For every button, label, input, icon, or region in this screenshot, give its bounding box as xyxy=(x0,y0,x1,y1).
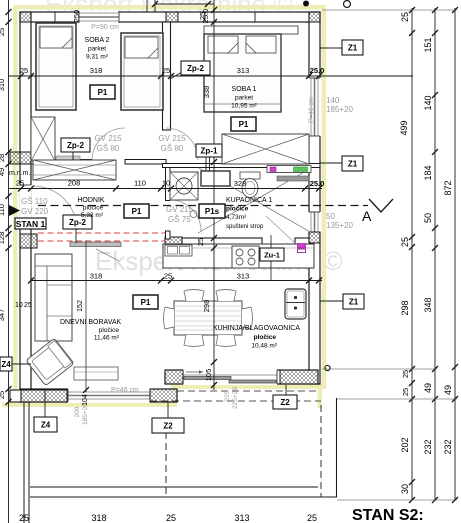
svg-text:P=46 cm: P=46 cm xyxy=(111,387,139,394)
svg-text:250: 250 xyxy=(72,10,81,23)
window bottom living xyxy=(68,388,150,403)
wall partition soba2/soba1 xyxy=(163,22,171,130)
insulation bottom kitchen yellow xyxy=(171,385,322,390)
svg-text:49: 49 xyxy=(423,383,433,393)
svg-text:Zp-1: Zp-1 xyxy=(201,146,218,155)
svg-text:GV 215: GV 215 xyxy=(94,134,122,143)
svg-text:298: 298 xyxy=(202,300,211,313)
sliding door kitchen terrace xyxy=(183,369,277,385)
svg-text:25: 25 xyxy=(400,12,410,22)
svg-text:298: 298 xyxy=(400,300,410,315)
wall bathroom left lower xyxy=(166,231,171,239)
svg-text:318: 318 xyxy=(90,66,103,75)
svg-text:10: 10 xyxy=(162,179,170,188)
wall kitchen-bathroom left segment xyxy=(182,238,262,248)
leader Zp-2 soba1 xyxy=(170,72,182,79)
svg-text:P=40 cm: P=40 cm xyxy=(308,97,315,123)
svg-text:P1: P1 xyxy=(132,207,142,216)
dim line y280 xyxy=(31,280,322,282)
svg-text:310: 310 xyxy=(0,79,6,92)
circle top right xyxy=(344,1,351,8)
bed C soba1 double xyxy=(204,26,298,112)
section line A xyxy=(38,205,368,207)
hatch pier top-right corner xyxy=(309,12,320,22)
svg-text:135+20: 135+20 xyxy=(326,221,353,230)
dim line hallway y188 xyxy=(8,188,322,190)
insulation right yellow xyxy=(322,5,327,389)
svg-text:pločice: pločice xyxy=(254,334,277,341)
svg-text:DNEVNI BORAVAK: DNEVNI BORAVAK xyxy=(60,319,122,326)
label box Zu-1 xyxy=(260,248,284,261)
gray bar bathroom shower xyxy=(277,176,309,181)
closet soba1 X xyxy=(222,134,309,164)
label box Z1 xyxy=(342,40,363,55)
svg-text:Z1: Z1 xyxy=(348,43,358,52)
hatch pier kitchen bottom-left xyxy=(165,370,183,384)
dim chain center x214 xyxy=(213,0,215,390)
sliding door pocket diagonal xyxy=(96,249,119,261)
wall bathroom left upper xyxy=(166,168,171,201)
svg-text:50: 50 xyxy=(423,213,433,223)
label box Zp-2 xyxy=(63,215,92,229)
washing machine xyxy=(170,172,198,200)
svg-text:872: 872 xyxy=(443,180,453,195)
svg-text:25: 25 xyxy=(162,66,170,75)
label box P1s xyxy=(199,204,225,218)
leader Zp-2 closet xyxy=(72,151,74,160)
svg-text:Zp-2: Zp-2 xyxy=(187,64,204,73)
svg-text:185+20: 185+20 xyxy=(326,105,353,114)
terrace dashed vertical right xyxy=(320,405,322,497)
wall right xyxy=(309,12,320,384)
leader Zu-1 xyxy=(270,235,272,280)
leader Z1 mid xyxy=(320,162,342,164)
leader Z2 bottom xyxy=(167,402,169,418)
bed B soba2 right xyxy=(121,33,163,110)
insulation step yellow xyxy=(173,385,178,407)
chair bottom2 xyxy=(216,335,236,347)
label box P1 xyxy=(133,295,158,309)
svg-text:10: 10 xyxy=(15,302,23,309)
svg-text:Zu-1: Zu-1 xyxy=(264,250,280,259)
svg-text:Z1: Z1 xyxy=(349,297,359,306)
svg-text:347: 347 xyxy=(0,309,6,322)
svg-text:STAN S2:: STAN S2: xyxy=(352,507,424,523)
svg-text:10,48 m²: 10,48 m² xyxy=(251,343,277,350)
wall top xyxy=(20,12,320,22)
insulation kitchen corner yellow xyxy=(318,388,323,408)
svg-text:25: 25 xyxy=(16,179,24,188)
svg-text:110: 110 xyxy=(0,204,6,216)
label box P1 xyxy=(231,117,256,131)
top wall divider xyxy=(54,12,56,22)
label box Z1 xyxy=(343,294,364,309)
svg-text:parket: parket xyxy=(235,95,253,102)
extension line living x86 xyxy=(85,240,87,392)
svg-text:pločice: pločice xyxy=(99,327,120,334)
armchair rotated xyxy=(26,338,74,385)
svg-text:m.n.m.: m.n.m. xyxy=(9,170,30,177)
wall hallway top right segment xyxy=(125,160,166,165)
hatch pier living bottom-right xyxy=(150,389,177,402)
svg-text:P=90 cm: P=90 cm xyxy=(91,24,119,31)
bed A soba2 left xyxy=(36,23,76,110)
svg-text:5,32 m²: 5,32 m² xyxy=(81,212,104,219)
svg-text:313: 313 xyxy=(237,272,250,281)
svg-text:208: 208 xyxy=(68,179,81,188)
svg-text:Zp-2: Zp-2 xyxy=(67,141,84,150)
wall bottom living xyxy=(20,389,177,402)
svg-text:4,73m²: 4,73m² xyxy=(226,214,247,221)
hatch wall living bottom-left xyxy=(21,390,67,402)
dim chain left x8 xyxy=(8,0,10,523)
svg-text:25: 25 xyxy=(198,12,207,20)
insulation top yellow xyxy=(13,5,326,10)
leader Z4 bottom xyxy=(44,402,46,417)
label box STAN 1 xyxy=(15,218,46,229)
svg-text:25: 25 xyxy=(166,513,176,523)
svg-text:232: 232 xyxy=(443,439,453,454)
insulation bottom living yellow xyxy=(2,403,177,408)
hatch pier hallway-kitchen wall xyxy=(165,237,182,250)
terrace right solid line xyxy=(336,398,338,497)
fridge xyxy=(285,289,306,319)
label box Z1 xyxy=(342,156,363,171)
svg-text:348: 348 xyxy=(423,297,433,312)
svg-text:25: 25 xyxy=(400,237,410,247)
kitchen sink xyxy=(165,245,192,256)
hatch pier right bathroom window xyxy=(309,232,320,243)
svg-text:25: 25 xyxy=(0,28,6,36)
magenta switch kitchen xyxy=(298,244,306,253)
svg-text:110: 110 xyxy=(134,179,146,188)
door arc bathroom xyxy=(170,200,201,231)
dining table xyxy=(174,301,242,335)
svg-text:KUHINJA/BLAGOVAONICA: KUHINJA/BLAGOVAONICA xyxy=(213,325,300,332)
leader Zp-1 xyxy=(205,156,207,171)
pier living bottom-left protruding xyxy=(10,390,21,402)
svg-text:P1: P1 xyxy=(239,120,249,129)
svg-text:GŠ 80: GŠ 80 xyxy=(97,144,120,153)
label box Zp-2 xyxy=(181,61,210,75)
svg-text:104: 104 xyxy=(82,394,89,406)
svg-text:50: 50 xyxy=(326,212,335,221)
leader Z1 bottom xyxy=(320,300,343,302)
leader Z4 left xyxy=(11,363,31,365)
kitchen stove xyxy=(232,246,259,268)
boiler bathroom xyxy=(201,171,230,186)
red dashed ceiling lines xyxy=(38,232,165,234)
entrance door opening left wall xyxy=(20,185,78,230)
svg-text:P1s: P1s xyxy=(205,207,220,216)
svg-text:49: 49 xyxy=(443,385,453,395)
svg-text:25: 25 xyxy=(401,388,410,396)
svg-text:9,31 m²: 9,31 m² xyxy=(86,54,109,61)
svg-text:25: 25 xyxy=(196,238,205,246)
svg-text:GŠ 110: GŠ 110 xyxy=(21,197,48,206)
extension lines right xyxy=(322,9,457,11)
svg-text:25.0: 25.0 xyxy=(310,66,325,75)
leader Z1 top xyxy=(320,47,342,49)
svg-text:parket: parket xyxy=(88,46,106,53)
svg-text:318: 318 xyxy=(90,272,103,281)
label box P1 xyxy=(124,204,149,218)
svg-text:P1: P1 xyxy=(98,88,108,97)
terrace left double line xyxy=(23,402,25,523)
sliding door hallway bar xyxy=(70,242,121,247)
svg-text:225+20: 225+20 xyxy=(232,387,239,409)
wall hallway top left segment xyxy=(31,160,92,165)
chair top1 xyxy=(184,290,204,302)
hatch pier left hallway xyxy=(10,152,31,164)
svg-text:25: 25 xyxy=(164,272,172,281)
svg-text:200: 200 xyxy=(74,406,81,417)
top partial dim marks xyxy=(146,0,148,12)
bathroom cross X xyxy=(198,168,312,234)
svg-text:P1: P1 xyxy=(141,298,151,307)
svg-text:SOBA 2: SOBA 2 xyxy=(85,37,110,44)
terrace edge line upper xyxy=(30,486,318,488)
svg-text:25: 25 xyxy=(20,66,28,75)
hatch pier top partition xyxy=(166,12,178,22)
roof overhang dashed lower xyxy=(150,400,321,402)
roof overhang dashed upper xyxy=(177,390,318,392)
svg-text:Z1: Z1 xyxy=(348,159,358,168)
svg-text:STAN 1: STAN 1 xyxy=(16,219,46,229)
wardrobe soba2 left X xyxy=(31,117,55,161)
svg-text:25: 25 xyxy=(24,302,32,309)
chair top2 xyxy=(216,290,236,302)
svg-text:GV 220: GV 220 xyxy=(21,207,49,216)
svg-text:28: 28 xyxy=(0,154,6,162)
hatch pier top-left corner xyxy=(20,12,31,22)
svg-text:151: 151 xyxy=(423,37,433,52)
svg-text:25: 25 xyxy=(401,370,410,378)
wall kitchen-bathroom right segment xyxy=(295,238,309,248)
svg-text:140: 140 xyxy=(423,95,433,110)
window right soba1 xyxy=(308,78,321,136)
window top soba2 xyxy=(79,11,119,24)
svg-text:105: 105 xyxy=(204,369,213,382)
terrace edge line lower xyxy=(30,496,337,498)
insulation left yellow xyxy=(13,5,18,407)
dot top wall xyxy=(303,1,309,7)
chair right xyxy=(242,307,253,329)
svg-text:10,95 m²: 10,95 m² xyxy=(231,103,257,110)
hatch pier kitchen bottom-right xyxy=(280,370,318,384)
svg-text:spušteni strop: spušteni strop xyxy=(226,224,264,230)
label box Z2 bottom xyxy=(152,418,184,433)
svg-text:GV 215: GV 215 xyxy=(166,205,194,214)
svg-text:HODNIK: HODNIK xyxy=(77,197,105,204)
label box Zp-2 xyxy=(61,138,90,152)
shelf colored bathroom xyxy=(267,166,311,173)
kitchen counter xyxy=(163,244,314,268)
svg-text:140: 140 xyxy=(326,96,340,105)
circle kitchen corner xyxy=(325,365,330,370)
label box Zp-1 xyxy=(196,144,222,157)
coffee table xyxy=(74,367,118,380)
svg-text:A: A xyxy=(362,208,372,224)
label box Z4 left xyxy=(0,357,12,371)
window right bathroom xyxy=(308,212,321,232)
svg-text:Zp-2: Zp-2 xyxy=(69,218,86,227)
wall bottom kitchen xyxy=(165,370,318,384)
door arc soba2 xyxy=(92,128,125,161)
svg-text:499: 499 xyxy=(399,120,409,135)
svg-text:pločice: pločice xyxy=(83,205,104,212)
wall left xyxy=(20,12,31,402)
svg-text:338: 338 xyxy=(202,86,211,99)
label box Z2 right xyxy=(273,395,297,409)
sofa xyxy=(35,254,72,341)
leader Z2 right xyxy=(285,385,287,396)
terrace dashed vertical left xyxy=(165,432,167,497)
svg-text:225: 225 xyxy=(224,390,231,401)
label box P1 xyxy=(90,85,115,99)
svg-text:GV 215: GV 215 xyxy=(158,134,186,143)
wall bathroom top xyxy=(163,164,321,168)
WC bathroom xyxy=(240,172,260,198)
svg-text:SOBA 1: SOBA 1 xyxy=(232,86,257,93)
dim line top y76 xyxy=(8,75,413,77)
svg-text:184: 184 xyxy=(423,165,433,180)
svg-text:49: 49 xyxy=(0,168,6,176)
closet hallway X xyxy=(33,156,116,180)
chair bottom1 xyxy=(184,335,204,347)
svg-text:Z2: Z2 xyxy=(163,421,173,430)
svg-text:313: 313 xyxy=(234,513,249,523)
svg-text:318: 318 xyxy=(91,513,106,523)
svg-text:GŠ 75: GŠ 75 xyxy=(168,215,191,224)
chair left xyxy=(164,307,175,329)
svg-text:313: 313 xyxy=(237,66,250,75)
svg-text:GŠ 80: GŠ 80 xyxy=(161,144,184,153)
svg-text:25: 25 xyxy=(307,513,317,523)
label box Z4 bottom xyxy=(34,417,57,432)
elevation triangle entrance xyxy=(9,205,20,216)
svg-text:328: 328 xyxy=(234,179,247,188)
svg-text:202: 202 xyxy=(400,437,410,452)
dim chains right xyxy=(411,8,413,500)
svg-text:Z2: Z2 xyxy=(280,398,290,407)
leader Zp-2 hallway xyxy=(75,229,77,243)
floor drain circle xyxy=(190,211,197,218)
svg-text:25: 25 xyxy=(0,391,6,399)
svg-text:Z4: Z4 xyxy=(1,360,11,369)
svg-text:232: 232 xyxy=(423,439,433,454)
svg-text:Z4: Z4 xyxy=(41,420,51,429)
svg-text:25.0: 25.0 xyxy=(310,179,325,188)
svg-text:152: 152 xyxy=(77,300,84,312)
door arc soba1 xyxy=(166,128,198,160)
svg-text:128: 128 xyxy=(0,232,6,245)
svg-text:11,46 m²: 11,46 m² xyxy=(94,335,120,342)
svg-text:pločice: pločice xyxy=(226,206,249,213)
svg-text:30: 30 xyxy=(400,484,410,494)
door leaf kitchen-bathroom xyxy=(266,216,295,243)
hatch pier left below stan1 xyxy=(20,234,37,248)
svg-text:KUPAONICA 1: KUPAONICA 1 xyxy=(226,197,272,204)
